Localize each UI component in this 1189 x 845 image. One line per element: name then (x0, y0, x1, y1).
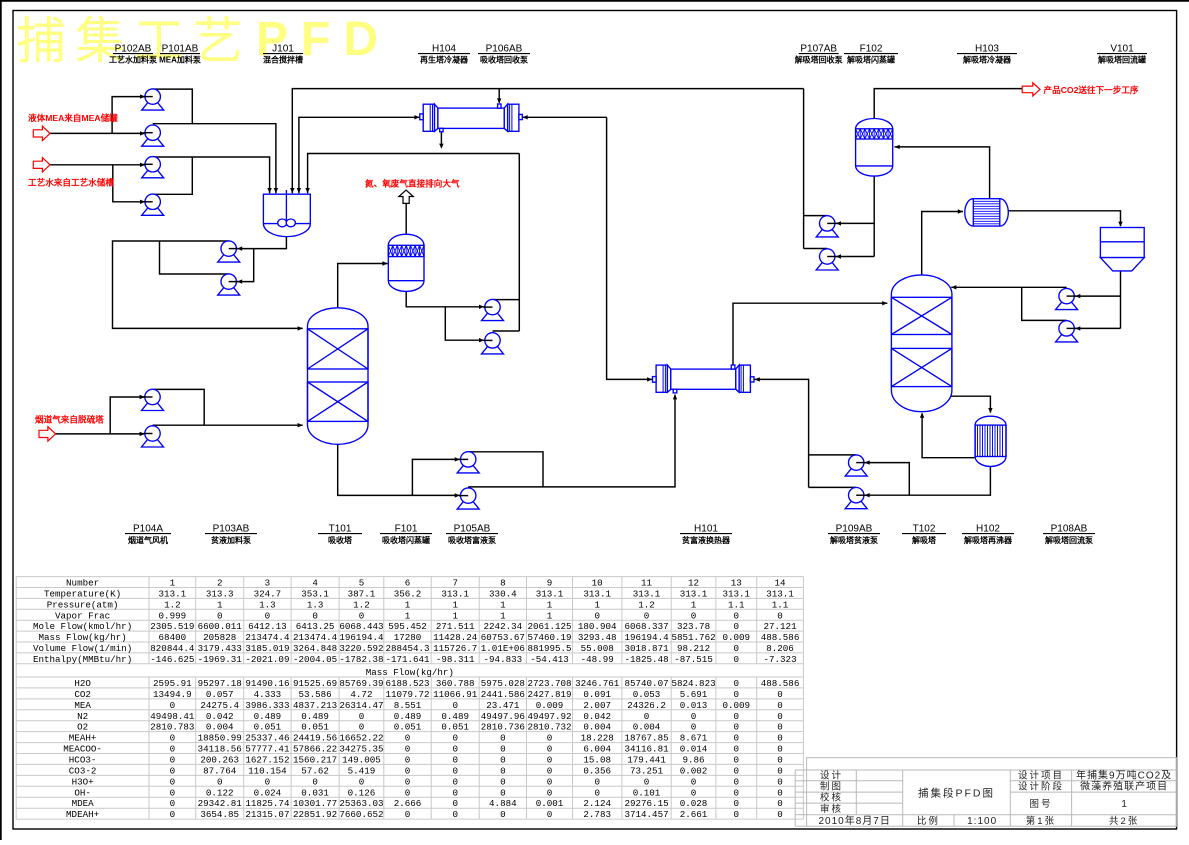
wire: MEA feed to P101AB pumps (50, 94, 145, 135)
svg-text:95297.18: 95297.18 (198, 678, 242, 689)
svg-text:24419.56: 24419.56 (293, 733, 337, 744)
svg-text:-2004.05: -2004.05 (293, 654, 337, 665)
svg-text:0: 0 (547, 809, 553, 820)
svg-text:2: 2 (217, 578, 223, 589)
svg-text:0: 0 (644, 610, 650, 621)
svg-text:0: 0 (452, 755, 458, 766)
svg-text:解吸塔冷凝器: 解吸塔冷凝器 (963, 55, 1012, 65)
svg-text:解吸塔再沸器: 解吸塔再沸器 (964, 535, 1013, 545)
svg-text:6: 6 (405, 578, 411, 589)
svg-text:P106AB: P106AB (486, 44, 523, 55)
wire: P107A discharge (804, 215, 828, 217)
svg-text:0: 0 (405, 755, 411, 766)
svg-text:吸收塔富液泵: 吸收塔富液泵 (448, 535, 496, 545)
svg-text:1: 1 (500, 610, 506, 621)
condenser H103 (965, 199, 1009, 226)
svg-text:0: 0 (217, 776, 223, 787)
svg-text:0.004: 0.004 (583, 722, 611, 733)
svg-text:4.333: 4.333 (254, 689, 282, 700)
svg-text:4.884: 4.884 (489, 798, 517, 809)
svg-text:-2021.09: -2021.09 (245, 654, 289, 665)
svg-text:196194.4: 196194.4 (339, 632, 384, 643)
svg-text:8.551: 8.551 (394, 700, 422, 711)
svg-text:制图: 制图 (820, 781, 843, 793)
svg-text:0: 0 (691, 711, 697, 722)
svg-text:6413.25: 6413.25 (296, 621, 335, 632)
svg-text:0.031: 0.031 (301, 787, 329, 798)
svg-text:1: 1 (170, 578, 176, 589)
svg-text:11: 11 (641, 578, 653, 589)
pump P109A (845, 455, 867, 476)
svg-text:0: 0 (452, 700, 458, 711)
svg-text:3179.433: 3179.433 (198, 643, 242, 654)
wire: P109A discharge (809, 454, 857, 456)
red label: 烟道气来自脱硫塔 (35, 414, 104, 425)
wire: wash recycle to J101 (305, 154, 519, 332)
svg-text:-1969.31: -1969.31 (198, 654, 243, 665)
svg-text:0.057: 0.057 (206, 689, 234, 700)
svg-text:3654.85: 3654.85 (200, 809, 239, 820)
svg-text:0: 0 (691, 787, 697, 798)
label T102 (902, 524, 946, 546)
svg-text:H3O+: H3O+ (72, 776, 94, 787)
svg-text:6412.13: 6412.13 (248, 621, 287, 632)
red product arrow: CO2 (1022, 83, 1040, 96)
svg-text:0.051: 0.051 (301, 722, 329, 733)
svg-text:吸收塔: 吸收塔 (328, 535, 353, 545)
svg-text:2.124: 2.124 (583, 798, 611, 809)
label V101 (1097, 44, 1147, 65)
svg-text:0: 0 (500, 755, 506, 766)
svg-text:H101: H101 (694, 524, 718, 535)
svg-text:22851.92: 22851.92 (293, 809, 337, 820)
svg-text:CO2: CO2 (74, 689, 91, 700)
svg-text:0: 0 (170, 798, 176, 809)
svg-text:0: 0 (170, 744, 176, 755)
svg-text:0.028: 0.028 (680, 798, 708, 809)
svg-text:356.2: 356.2 (394, 589, 422, 600)
svg-text:55.008: 55.008 (581, 643, 614, 654)
svg-text:Volume Flow(1/min): Volume Flow(1/min) (33, 643, 132, 654)
svg-text:0: 0 (170, 787, 176, 798)
svg-text:0: 0 (734, 610, 740, 621)
svg-text:0: 0 (777, 610, 783, 621)
svg-text:解吸塔闪蒸罐: 解吸塔闪蒸罐 (847, 55, 895, 65)
pump P108B (1056, 321, 1078, 342)
svg-text:18767.85: 18767.85 (624, 733, 668, 744)
svg-text:2061.125: 2061.125 (527, 621, 571, 632)
svg-text:5: 5 (359, 578, 365, 589)
pump P108A (1056, 288, 1078, 309)
svg-text:7660.652: 7660.652 (339, 809, 383, 820)
svg-text:0.489: 0.489 (394, 711, 422, 722)
svg-text:0: 0 (452, 787, 458, 798)
svg-text:6.004: 6.004 (583, 744, 611, 755)
svg-text:5.419: 5.419 (348, 765, 376, 776)
wire: J101 bottoms to P103AB pumps (237, 237, 286, 284)
wire: F102 overhead product CO2 line (874, 89, 1022, 119)
svg-text:1: 1 (405, 599, 411, 610)
svg-text:0: 0 (691, 610, 697, 621)
svg-text:57.62: 57.62 (301, 765, 329, 776)
svg-text:0: 0 (312, 610, 318, 621)
svg-text:Enthalpy(MMBtu/hr): Enthalpy(MMBtu/hr) (33, 654, 132, 665)
svg-text:MEA: MEA (74, 700, 91, 711)
svg-text:2.007: 2.007 (583, 700, 611, 711)
svg-text:贫富液换热器: 贫富液换热器 (681, 535, 731, 545)
svg-text:1: 1 (452, 610, 458, 621)
svg-text:0: 0 (170, 765, 176, 776)
svg-text:5851.762: 5851.762 (671, 632, 715, 643)
svg-text:60753.67: 60753.67 (481, 632, 525, 643)
pump P105A (457, 452, 479, 473)
svg-text:0: 0 (170, 776, 176, 787)
svg-text:25363.03: 25363.03 (339, 798, 383, 809)
svg-text:10: 10 (592, 578, 603, 589)
svg-text:2810.732: 2810.732 (527, 722, 571, 733)
svg-text:0: 0 (594, 610, 600, 621)
svg-text:0: 0 (777, 809, 783, 820)
svg-text:Mass Flow(kg/hr): Mass Flow(kg/hr) (366, 667, 454, 678)
svg-text:共2张: 共2张 (1109, 816, 1139, 827)
pump P106B (482, 333, 504, 354)
wire: T101 overhead to F101 (338, 261, 388, 307)
svg-text:0.489: 0.489 (441, 711, 469, 722)
svg-text:-146.625: -146.625 (150, 654, 194, 665)
svg-text:23.471: 23.471 (486, 700, 520, 711)
svg-text:2.661: 2.661 (680, 809, 708, 820)
svg-text:P105AB: P105AB (454, 524, 491, 535)
svg-text:1.1: 1.1 (728, 599, 745, 610)
svg-text:Pressure(atm): Pressure(atm) (47, 599, 119, 610)
svg-text:9: 9 (547, 578, 553, 589)
svg-text:205828: 205828 (203, 632, 236, 643)
wire: F102 bottoms to P107AB pumps (836, 176, 874, 259)
svg-text:Number: Number (66, 578, 99, 589)
svg-text:0: 0 (691, 722, 697, 733)
svg-text:0: 0 (359, 610, 365, 621)
svg-text:213474.4: 213474.4 (245, 632, 290, 643)
washer vessel F101 (388, 234, 424, 291)
svg-text:0: 0 (777, 733, 783, 744)
svg-text:0: 0 (500, 733, 506, 744)
svg-text:85740.07: 85740.07 (624, 678, 668, 689)
svg-text:13: 13 (731, 578, 742, 589)
label P108AB (1043, 524, 1095, 546)
svg-text:产品CO2送往下一步工序: 产品CO2送往下一步工序 (1044, 84, 1139, 95)
svg-text:21315.07: 21315.07 (245, 809, 289, 820)
svg-text:11079.72: 11079.72 (385, 689, 429, 700)
svg-text:180.904: 180.904 (578, 621, 617, 632)
svg-text:15.08: 15.08 (583, 755, 611, 766)
svg-text:87.764: 87.764 (203, 765, 237, 776)
svg-text:解吸塔回流泵: 解吸塔回流泵 (1045, 535, 1093, 545)
svg-text:353.1: 353.1 (301, 589, 329, 600)
svg-text:0.042: 0.042 (206, 711, 234, 722)
svg-text:0: 0 (359, 722, 365, 733)
svg-text:-7.323: -7.323 (764, 654, 797, 665)
svg-text:3264.848: 3264.848 (293, 643, 337, 654)
svg-text:0: 0 (777, 798, 783, 809)
stream data table (16, 577, 803, 821)
svg-text:Mole Flow(kmol/hr): Mole Flow(kmol/hr) (33, 621, 132, 632)
wire: F101 vent line (405, 203, 407, 234)
svg-text:11066.91: 11066.91 (433, 689, 478, 700)
svg-text:MEAH+: MEAH+ (69, 733, 97, 744)
svg-text:0: 0 (452, 798, 458, 809)
svg-text:0: 0 (777, 765, 783, 776)
svg-text:烟道气风机: 烟道气风机 (128, 535, 168, 545)
svg-text:313.1: 313.1 (583, 589, 611, 600)
label P102AB (109, 44, 157, 65)
svg-text:0: 0 (734, 809, 740, 820)
wire: P106A discharge (493, 299, 520, 301)
svg-text:0: 0 (405, 733, 411, 744)
pump P106A (482, 299, 504, 320)
reboiler H102 (975, 416, 1006, 466)
svg-text:液体MEA来自MEA储罐: 液体MEA来自MEA储罐 (28, 112, 118, 123)
label H101 (680, 524, 732, 546)
svg-text:0: 0 (777, 689, 783, 700)
wire: flue gas feed to P104A blowers (56, 395, 145, 436)
svg-text:OH-: OH- (74, 787, 91, 798)
svg-text:57460.19: 57460.19 (527, 632, 571, 643)
svg-text:0: 0 (170, 809, 176, 820)
svg-text:91490.16: 91490.16 (245, 678, 289, 689)
wire: process water feed to P102AB pumps (50, 163, 145, 204)
svg-text:6188.523: 6188.523 (385, 678, 429, 689)
heat exchanger H101 lean/rich interchanger (653, 365, 755, 393)
svg-text:1.1: 1.1 (772, 599, 789, 610)
svg-text:2.666: 2.666 (394, 798, 422, 809)
svg-text:18850.99: 18850.99 (198, 733, 242, 744)
svg-text:0: 0 (594, 787, 600, 798)
svg-text:0: 0 (734, 765, 740, 776)
svg-text:0: 0 (452, 765, 458, 776)
svg-text:0.014: 0.014 (680, 744, 708, 755)
wire: H101 shell outlet to T102 feed (733, 301, 887, 365)
svg-text:1.3: 1.3 (307, 599, 324, 610)
svg-text:313.3: 313.3 (206, 589, 234, 600)
svg-text:氮、氧废气直接排向大气: 氮、氧废气直接排向大气 (365, 178, 460, 189)
svg-text:2441.586: 2441.586 (481, 689, 525, 700)
svg-text:0: 0 (405, 809, 411, 820)
svg-text:360.788: 360.788 (436, 678, 475, 689)
svg-text:313.1: 313.1 (633, 589, 661, 600)
svg-text:1.2: 1.2 (164, 599, 181, 610)
svg-text:57777.41: 57777.41 (245, 744, 290, 755)
svg-text:-54.413: -54.413 (530, 654, 569, 665)
svg-text:0.042: 0.042 (583, 711, 611, 722)
svg-text:J101: J101 (272, 44, 294, 55)
flash drum F102 (856, 118, 893, 176)
svg-text:第1张: 第1张 (1026, 815, 1056, 827)
svg-text:1627.152: 1627.152 (245, 755, 289, 766)
svg-text:57866.22: 57866.22 (293, 744, 337, 755)
svg-text:Mass Flow(kg/hr): Mass Flow(kg/hr) (38, 632, 126, 643)
svg-text:H102: H102 (976, 524, 1000, 535)
svg-text:68400: 68400 (159, 632, 187, 643)
svg-text:0: 0 (500, 765, 506, 776)
svg-text:2427.819: 2427.819 (527, 689, 571, 700)
svg-text:323.78: 323.78 (677, 621, 710, 632)
svg-text:213474.4: 213474.4 (293, 632, 338, 643)
svg-text:T101: T101 (329, 524, 352, 535)
absorber column T101 (308, 308, 369, 445)
pump P101A (MEA pump A) (142, 89, 164, 110)
svg-text:29276.15: 29276.15 (624, 798, 668, 809)
wire: P105A discharge down-leg (468, 452, 543, 487)
svg-text:313.1: 313.1 (536, 589, 564, 600)
svg-text:0.002: 0.002 (680, 765, 708, 776)
svg-text:0.009: 0.009 (536, 700, 564, 711)
wire: P106B discharge (493, 330, 520, 332)
svg-text:F102: F102 (860, 44, 883, 55)
svg-text:0: 0 (734, 654, 740, 665)
wire: H101 to H104 lean line (523, 115, 653, 382)
svg-text:吸收塔闪蒸罐: 吸收塔闪蒸罐 (382, 535, 430, 545)
svg-text:P102AB: P102AB (115, 44, 152, 55)
svg-text:387.1: 387.1 (348, 589, 376, 600)
svg-text:14: 14 (775, 578, 787, 589)
wire: H104 outlet to J101 (297, 115, 420, 193)
svg-text:0.004: 0.004 (206, 722, 234, 733)
svg-text:0: 0 (734, 621, 740, 632)
pump P109B (845, 488, 867, 509)
svg-text:-94.833: -94.833 (484, 654, 523, 665)
pump P101B (MEA pump B) (142, 125, 164, 146)
svg-text:2810.783: 2810.783 (150, 722, 194, 733)
svg-text:-171.641: -171.641 (385, 654, 430, 665)
svg-text:24275.4: 24275.4 (200, 700, 239, 711)
svg-text:1:100: 1:100 (967, 816, 997, 827)
svg-text:0.051: 0.051 (254, 722, 282, 733)
svg-text:3: 3 (265, 578, 271, 589)
svg-text:13494.9: 13494.9 (153, 689, 192, 700)
wire: H104 cooling water inlet stub (497, 89, 501, 104)
svg-text:0.489: 0.489 (301, 711, 329, 722)
wire: P108AB reflux to T102 top (951, 285, 1066, 320)
svg-text:11428.24: 11428.24 (433, 632, 478, 643)
svg-text:6068.443: 6068.443 (339, 621, 383, 632)
svg-text:MDEA: MDEA (72, 798, 95, 809)
svg-text:0: 0 (500, 744, 506, 755)
svg-text:0.024: 0.024 (254, 787, 282, 798)
svg-text:34118.56: 34118.56 (198, 744, 242, 755)
svg-text:0: 0 (170, 755, 176, 766)
label P106AB (478, 44, 530, 65)
svg-text:200.263: 200.263 (200, 755, 239, 766)
svg-text:2305.519: 2305.519 (150, 621, 194, 632)
wire: H103 vent to F102 (895, 145, 990, 199)
svg-text:110.154: 110.154 (248, 765, 287, 776)
svg-text:1: 1 (405, 610, 411, 621)
svg-text:解吸塔回收泵: 解吸塔回收泵 (795, 55, 843, 65)
red label: 液体MEA来自MEA储罐 (28, 112, 118, 123)
svg-text:34116.81: 34116.81 (624, 744, 669, 755)
stripper column T102 (891, 275, 952, 412)
svg-text:0.101: 0.101 (633, 787, 661, 798)
svg-text:0: 0 (547, 733, 553, 744)
svg-text:179.441: 179.441 (627, 755, 666, 766)
wire: rich solution to H101 shell inlet (468, 394, 677, 487)
svg-text:0: 0 (777, 722, 783, 733)
svg-text:149.005: 149.005 (342, 755, 381, 766)
pump P102B (water pump B) (142, 194, 164, 215)
svg-text:0: 0 (547, 755, 553, 766)
svg-text:0: 0 (452, 776, 458, 787)
svg-text:CO3-2: CO3-2 (69, 765, 97, 776)
svg-text:0: 0 (265, 610, 271, 621)
svg-text:T102: T102 (913, 524, 936, 535)
wire: P101A discharge down-leg (153, 89, 193, 124)
svg-text:0.009: 0.009 (723, 700, 751, 711)
reflux drum V101 (1100, 228, 1144, 271)
svg-text:设计项目: 设计项目 (1018, 770, 1064, 782)
svg-text:0: 0 (594, 776, 600, 787)
svg-text:0: 0 (734, 755, 740, 766)
svg-text:115726.7: 115726.7 (433, 643, 477, 654)
svg-text:-87.515: -87.515 (674, 654, 713, 665)
svg-text:3986.333: 3986.333 (245, 700, 289, 711)
svg-text:8.206: 8.206 (766, 643, 794, 654)
wire: P103A discharge to T101 top inlet (113, 241, 303, 331)
wire: T102 overhead to H103 (922, 209, 963, 274)
svg-text:0.001: 0.001 (536, 798, 564, 809)
wire: T102 bottoms to H102 reboiler (950, 396, 993, 413)
svg-text:98.212: 98.212 (677, 643, 710, 654)
svg-text:0: 0 (359, 776, 365, 787)
label P103AB (205, 524, 257, 546)
svg-text:0.051: 0.051 (394, 722, 422, 733)
svg-text:0: 0 (777, 711, 783, 722)
svg-text:1.2: 1.2 (638, 599, 655, 610)
svg-text:微藻养殖联产项目: 微藻养殖联产项目 (1080, 780, 1168, 793)
svg-text:10301.77: 10301.77 (293, 798, 337, 809)
svg-text:29342.81: 29342.81 (198, 798, 243, 809)
svg-text:1: 1 (691, 599, 697, 610)
svg-text:91525.69: 91525.69 (293, 678, 337, 689)
svg-text:3018.871: 3018.871 (624, 643, 669, 654)
svg-text:0: 0 (405, 765, 411, 776)
svg-text:0: 0 (734, 678, 740, 689)
svg-text:设计: 设计 (820, 770, 843, 782)
wire: flue gas line to T101 bottom inlet (153, 423, 303, 427)
pump P104A-1 flue gas blower A (142, 389, 164, 410)
svg-text:313.1: 313.1 (680, 589, 708, 600)
svg-text:混合搅拌槽: 混合搅拌槽 (263, 55, 303, 65)
svg-text:0.004: 0.004 (633, 722, 661, 733)
svg-text:2242.34: 2242.34 (484, 621, 523, 632)
label J101 (263, 44, 303, 65)
svg-text:0: 0 (734, 787, 740, 798)
svg-text:0: 0 (547, 765, 553, 776)
svg-text:5.691: 5.691 (680, 689, 708, 700)
svg-text:196194.4: 196194.4 (624, 632, 669, 643)
svg-text:27.121: 27.121 (764, 621, 798, 632)
svg-text:17280: 17280 (394, 632, 422, 643)
svg-text:解吸塔贫液泵: 解吸塔贫液泵 (830, 535, 878, 545)
svg-text:0: 0 (644, 711, 650, 722)
svg-text:4.72: 4.72 (350, 689, 372, 700)
wire: P103B discharge up-leg (160, 241, 229, 274)
svg-text:-1825.48: -1825.48 (624, 654, 668, 665)
svg-text:26314.47: 26314.47 (339, 700, 383, 711)
wire: V101 bottoms to P108AB pumps (1075, 271, 1120, 331)
svg-text:5975.028: 5975.028 (481, 678, 525, 689)
svg-text:0: 0 (734, 689, 740, 700)
label H102 (962, 524, 1014, 546)
